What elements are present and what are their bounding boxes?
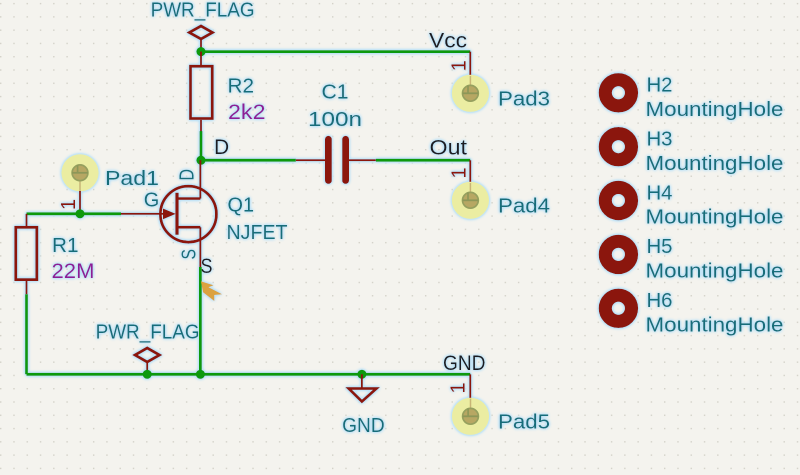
svg-text:C1: C1 xyxy=(322,82,349,104)
net label GND xyxy=(443,352,486,375)
net label S xyxy=(201,255,213,278)
value 2k2 xyxy=(228,101,266,124)
wire C1 to Out corner xyxy=(376,159,470,162)
svg-text:H2: H2 xyxy=(647,75,673,97)
pad label Pad5 xyxy=(498,411,550,433)
wire D node to C1 xyxy=(201,159,296,162)
svg-text:GND: GND xyxy=(342,415,385,437)
wire left vertical xyxy=(25,294,28,374)
wire source net vertical xyxy=(199,267,202,374)
junction at gate node xyxy=(75,209,84,218)
capacitor C1 xyxy=(296,139,376,180)
label MountingHole H5 xyxy=(646,261,784,283)
net label D xyxy=(214,136,229,159)
label MountingHole H3 xyxy=(646,153,784,175)
net label Vcc xyxy=(429,30,467,53)
svg-text:D: D xyxy=(177,169,199,181)
pad Pad1 xyxy=(61,154,98,191)
mounting hole H5 xyxy=(605,241,631,267)
reference R2 xyxy=(228,76,255,98)
svg-text:Vcc: Vcc xyxy=(429,30,467,53)
reference C1 xyxy=(322,82,349,104)
reference Q1 xyxy=(228,195,255,217)
svg-text:H6: H6 xyxy=(647,290,673,312)
svg-text:MountingHole: MountingHole xyxy=(646,261,784,283)
junction at Vcc node xyxy=(196,47,205,56)
power flag PWR_FLAG (top) label xyxy=(151,0,255,22)
svg-text:Pad3: Pad3 xyxy=(498,88,550,110)
label H6 xyxy=(647,290,673,312)
value NJFET xyxy=(227,222,288,244)
net label Out xyxy=(430,136,468,159)
power flag PWR_FLAG (top) symbol xyxy=(189,26,212,52)
label H2 xyxy=(647,75,673,97)
svg-text:Pad4: Pad4 xyxy=(498,195,550,217)
junction at PWR_FLAG bottom xyxy=(143,370,152,379)
svg-text:R1: R1 xyxy=(52,235,79,257)
pad Pad5 xyxy=(452,398,489,435)
pad symbol Pad5 pin xyxy=(448,374,471,398)
cursor arrow xyxy=(201,281,222,301)
wire Vcc horizontal xyxy=(201,50,470,53)
pin name S xyxy=(179,249,201,260)
power flag PWR_FLAG (bottom) symbol xyxy=(135,348,160,374)
svg-text:GND: GND xyxy=(443,352,486,375)
resistor R1 xyxy=(16,214,37,294)
mounting hole H4 xyxy=(605,187,631,213)
svg-text:MountingHole: MountingHole xyxy=(646,207,784,229)
svg-text:Pad5: Pad5 xyxy=(498,411,550,433)
svg-text:MountingHole: MountingHole xyxy=(646,315,784,337)
svg-text:PWR_FLAG: PWR_FLAG xyxy=(151,0,255,22)
svg-text:1: 1 xyxy=(449,167,471,178)
svg-text:MountingHole: MountingHole xyxy=(646,153,784,175)
ground symbol xyxy=(349,374,377,401)
mounting hole H2 xyxy=(605,80,631,106)
svg-text:1: 1 xyxy=(448,382,470,393)
svg-text:PWR_FLAG: PWR_FLAG xyxy=(96,322,200,344)
wire gate net xyxy=(27,212,122,215)
pad symbol Pad4 pin xyxy=(449,160,471,183)
junction at D node xyxy=(196,156,205,165)
pad symbol Pad3 pin xyxy=(449,52,471,76)
svg-text:1: 1 xyxy=(449,60,471,71)
label MountingHole H4 xyxy=(646,207,784,229)
svg-text:MountingHole: MountingHole xyxy=(646,99,784,121)
pad label Pad1 xyxy=(105,168,159,190)
label MountingHole H6 xyxy=(646,315,784,337)
label H4 xyxy=(647,182,673,204)
ground label GND xyxy=(342,415,385,437)
svg-text:D: D xyxy=(214,136,229,159)
wire ground bus xyxy=(27,373,471,376)
reference R1 xyxy=(52,235,79,257)
svg-text:NJFET: NJFET xyxy=(227,222,288,244)
label MountingHole H2 xyxy=(646,99,784,121)
svg-text:100n: 100n xyxy=(308,109,362,131)
pad Pad3 xyxy=(452,75,489,112)
svg-text:R2: R2 xyxy=(228,76,255,98)
svg-text:G: G xyxy=(144,189,160,211)
power flag PWR_FLAG (bottom) label xyxy=(96,322,200,344)
pin name D xyxy=(177,169,199,181)
transistor Q1 xyxy=(121,160,216,267)
svg-text:Pad1: Pad1 xyxy=(105,168,159,190)
svg-text:H5: H5 xyxy=(647,236,673,258)
value 22M xyxy=(52,260,95,283)
svg-text:2k2: 2k2 xyxy=(228,101,266,124)
mounting hole H6 xyxy=(605,295,631,321)
svg-text:Q1: Q1 xyxy=(228,195,255,217)
svg-text:1: 1 xyxy=(58,199,80,210)
svg-text:H3: H3 xyxy=(647,129,673,151)
pad label Pad3 xyxy=(498,88,550,110)
wire R2 to D node xyxy=(200,131,203,160)
svg-text:Out: Out xyxy=(430,136,468,159)
svg-text:22M: 22M xyxy=(52,260,95,283)
pin name G xyxy=(144,189,160,211)
pad Pad4 xyxy=(452,182,489,219)
svg-text:S: S xyxy=(179,249,201,260)
label H5 xyxy=(647,236,673,258)
svg-text:H4: H4 xyxy=(647,182,673,204)
junction at source/ground xyxy=(196,370,205,379)
value 100n xyxy=(308,109,362,131)
mounting hole H3 xyxy=(605,134,631,160)
svg-text:S: S xyxy=(201,255,213,278)
junction at GND symbol xyxy=(357,370,366,379)
pad symbol Pad1 pin xyxy=(58,191,80,214)
pad label Pad4 xyxy=(498,195,550,217)
resistor R2 xyxy=(191,52,213,132)
label H3 xyxy=(647,129,673,151)
